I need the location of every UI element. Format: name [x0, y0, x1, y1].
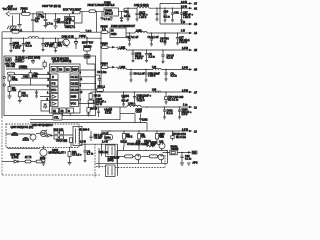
node dots rail y50: [132, 49, 163, 50]
wires IC left: [10, 75, 51, 97]
svg-text:C9D=9P-(2-9)9DC: C9D=9P-(2-9)9DC: [32, 124, 53, 127]
capacitor C3: [54, 14, 69, 29]
svg-text:0.1 m: 0.1 m: [167, 112, 173, 115]
resistor R942 47k: [8, 87, 17, 99]
resistor R961: [123, 131, 134, 147]
junction x122: [117, 155, 119, 157]
resistor chain R909: [88, 92, 101, 103]
svg-text:1.5 B: 1.5 B: [182, 66, 188, 69]
AC return bus y32: [2, 31, 80, 33]
svg-text:RG: RG: [193, 152, 197, 155]
resistor R910: [87, 103, 98, 116]
node dots rail y69: [130, 69, 166, 70]
svg-text:9MP: 9MP: [151, 144, 156, 147]
isolation dashed: [94, 144, 96, 178]
resistor R9 1.2: [70, 138, 73, 148]
capacitor C9Q2: [102, 131, 113, 144]
svg-text:(KA75 TL594C2): (KA75 TL594C2): [53, 60, 72, 63]
capacitor block C924: [65, 14, 76, 29]
svg-text:1 B: 1 B: [160, 135, 164, 138]
svg-text:1.5 B: 1.5 B: [182, 128, 188, 131]
svg-text:F B: F B: [52, 83, 56, 86]
transformer T9002: [73, 127, 82, 146]
capacitor C923: [148, 33, 159, 46]
wires IC right: [79, 70, 96, 104]
capacitor C942: [164, 69, 176, 81]
svg-text:TL(2) 3: TL(2) 3: [137, 99, 146, 102]
driver transistor Q9005: [133, 155, 135, 157]
node dots IC wires: [21, 69, 96, 84]
svg-text:0.1 m: 0.1 m: [167, 57, 173, 60]
svg-text:+ 16 B: + 16 B: [139, 16, 147, 19]
svg-text:C9 1uF: C9 1uF: [94, 137, 103, 140]
box CTL below IC: [53, 114, 62, 120]
node dots AC line: [32, 13, 56, 14]
transistor Q901: [58, 35, 74, 47]
wire Q9003 base: [8, 148, 40, 149]
AC plug P901: [3, 6, 18, 17]
svg-text:IC902: IC902: [104, 1, 111, 4]
capacitor C912: [41, 38, 54, 52]
diode D901: [74, 38, 77, 49]
snubber RC cluster: [96, 71, 107, 92]
svg-text:100u: 100u: [105, 136, 111, 139]
node dots rail y131: [109, 130, 173, 131]
optocoupler D9: [36, 130, 47, 138]
svg-text:CTL: CTL: [54, 116, 59, 119]
svg-text:4.7 B: 4.7 B: [96, 103, 102, 106]
svg-text:1M: 1M: [34, 75, 37, 78]
svg-text:+ 16 B: + 16 B: [13, 47, 21, 50]
inductor L908: [152, 89, 161, 92]
capacitor C924b: [160, 33, 169, 45]
capacitor C906: [120, 11, 123, 21]
svg-text:M5-1.5: M5-1.5: [105, 13, 113, 16]
fuse F9003b: [101, 42, 119, 50]
svg-text:KΩ 0.1m: KΩ 0.1m: [176, 136, 186, 139]
svg-text:1.6 B: 1.6 B: [80, 141, 86, 144]
driver stage feeds: [124, 147, 162, 150]
svg-text:1.5 B: 1.5 B: [182, 89, 188, 92]
bottom feedback wire: [2, 153, 44, 163]
svg-text:Q901 (2 B): Q901 (2 B): [62, 35, 74, 38]
rail L902 3.3B: [124, 4, 198, 10]
capacitor C913: [84, 55, 95, 64]
inductor L906: [118, 66, 153, 70]
resistor R964: [160, 131, 186, 141]
svg-text:470k: 470k: [12, 79, 18, 82]
svg-text:0.1 m: 0.1 m: [26, 44, 32, 47]
capacitor C922: [127, 33, 139, 46]
capacitor C9x: [146, 142, 148, 148]
resistor network cluster: [54, 128, 74, 142]
svg-text:1.5 B: 1.5 B: [182, 113, 188, 116]
svg-text:C93: C93: [164, 10, 169, 13]
svg-text:1.7 m: 1.7 m: [47, 23, 53, 26]
svg-text:1.7 m: 1.7 m: [87, 153, 93, 156]
IC top pin row: [51, 67, 79, 73]
svg-text:REF: REF: [73, 68, 78, 71]
resistor R927: [164, 92, 183, 104]
IC bottom pin row: [52, 108, 74, 113]
resistor R903: [54, 38, 63, 53]
transistor Q9007: [151, 139, 166, 150]
driver transistor Q9006: [157, 155, 160, 157]
transformer T9001 upper: [99, 145, 116, 157]
capacitor C929 electrolytic: [178, 107, 192, 119]
left frame wire: [1, 32, 3, 117]
bus y120: [30, 119, 120, 121]
transistor Q9003: [40, 146, 66, 166]
svg-text:C9 7+1 uF: C9 7+1 uF: [127, 36, 139, 39]
svg-text:MPSA/09L/9T t: MPSA/09L/9T t: [49, 152, 66, 155]
svg-text:1.5 B: 1.5 B: [182, 47, 188, 50]
arrow into C924: [72, 12, 75, 15]
rail y107 with L909: [93, 103, 197, 115]
capacitor C9007: [31, 14, 40, 32]
rail y131 loads: [101, 128, 197, 133]
svg-text:G: G: [68, 110, 70, 113]
svg-text:(MW): (MW): [108, 159, 114, 162]
fuse F9002: [21, 8, 31, 16]
svg-text:#1 Tk: #1 Tk: [25, 156, 32, 159]
capacitor C9008: [41, 14, 53, 28]
svg-text:0.1: 0.1: [35, 20, 39, 23]
resistor R941 470k: [8, 72, 19, 86]
svg-text:C92: C92: [174, 11, 179, 14]
capacitor C953: [83, 144, 93, 163]
svg-text:BOX "VOLREG": BOX "VOLREG": [63, 9, 81, 12]
svg-text:C9n: C9n: [124, 11, 129, 14]
svg-text:0.1 m: 0.1 m: [105, 112, 111, 115]
rail y92: [91, 89, 198, 94]
wire feed IC903: [96, 11, 98, 32]
capacitor C936 electrolytic: [131, 50, 144, 63]
transformer T9001 lower: [106, 156, 120, 176]
frame dashed bottom-left: [2, 117, 100, 175]
transistor pair arches: [6, 132, 31, 140]
capacitor C9H3: [136, 108, 149, 122]
snubber branch vertical: [94, 64, 96, 91]
dashed feedback box: [6, 124, 79, 148]
resistor cluster mid: [6, 59, 46, 86]
svg-text:+ 16 B: + 16 B: [148, 75, 156, 78]
svg-text:C9154: C9154: [122, 95, 130, 98]
resistor C9012: [19, 66, 28, 70]
svg-text:GND: GND: [71, 96, 77, 99]
svg-text:NC: NC: [52, 68, 56, 71]
snubber rail y38: [2, 37, 101, 39]
node dots rail y107: [146, 106, 180, 107]
driver resistor R9Q2: [119, 155, 125, 157]
primary bus vertical: [100, 32, 102, 92]
svg-text:+ 6.3 B: + 6.3 B: [179, 41, 187, 44]
svg-text:R9Q1: R9Q1: [121, 141, 128, 144]
capacitor C914: [97, 107, 100, 117]
varistor MOV R9: [82, 38, 93, 54]
svg-text:9D 100-6: 9D 100-6: [79, 129, 90, 132]
resistor R91: [68, 147, 83, 165]
inductor L9001: [79, 35, 87, 38]
capacitor C905: [100, 11, 109, 20]
svg-text:1.M: 1.M: [6, 59, 10, 62]
wire y144 secondary: [79, 143, 118, 145]
svg-text:+ 16 B: + 16 B: [135, 57, 143, 60]
inductor L901: [29, 37, 39, 39]
capacitor C9154: [122, 92, 130, 106]
svg-text:1292: 1292: [142, 118, 148, 121]
wire C924 to F9007: [75, 11, 83, 23]
capacitor C9016: [35, 90, 38, 98]
svg-text:C964.7 u: C964.7 u: [65, 26, 76, 29]
chassis ground (plug): [7, 16, 17, 30]
svg-text:0.1 m: 0.1 m: [171, 75, 177, 78]
fuse F9007: [80, 4, 115, 13]
IC left pin boxes: [51, 74, 59, 107]
svg-text:GND: GND: [111, 33, 117, 36]
svg-text:"DC 94/7.8 #: "DC 94/7.8 #: [3, 8, 18, 11]
svg-text:C1 E1: C1 E1: [71, 76, 79, 79]
svg-text:+ 10 B: + 10 B: [183, 16, 191, 19]
svg-text:1.4 B: 1.4 B: [102, 141, 108, 144]
svg-text:C9+ 3M: C9+ 3M: [6, 65, 15, 68]
vertical x135: [134, 114, 136, 123]
svg-text:F9007 LF9045=945=3.5: F9007 LF9045=945=3.5: [88, 4, 115, 7]
svg-text:16 B: 16 B: [65, 22, 70, 25]
IC pin numbers: [47, 72, 83, 103]
transistor Q9002: [30, 134, 36, 142]
inductor L903: [135, 29, 198, 35]
wire AC hot y14: [11, 11, 80, 14]
node dots y152: [166, 152, 182, 153]
svg-text:MOV "PA": MOV "PA": [82, 41, 93, 44]
driver resistor R9Q3: [142, 155, 150, 157]
svg-text:1 B: 1 B: [181, 30, 185, 33]
svg-text:Q90? #9(A)C91 (2?): Q90? #9(A)C91 (2?): [11, 126, 34, 129]
svg-text:2.2 m: 2.2 m: [149, 56, 155, 59]
capacitor C917 electrolytic: [135, 8, 148, 21]
svg-text:RC: RC: [66, 68, 70, 71]
connector pins enclosure left: [3, 76, 5, 86]
fuse F9005: [80, 26, 110, 34]
svg-text:FB: FB: [59, 68, 63, 71]
svg-text:440 k: 440 k: [126, 136, 133, 139]
fuse F9003: [11, 29, 23, 33]
regulator IC903: [110, 25, 136, 37]
fuse F9001: [163, 145, 198, 154]
resistor R963: [156, 131, 165, 139]
svg-text:12B: 12B: [136, 141, 141, 144]
fuse F9004: [101, 62, 119, 69]
svg-text:C9 0.1 uF: C9 0.1 uF: [134, 72, 145, 75]
svg-text:C1+9: C1+9: [136, 111, 143, 114]
svg-text:470: 470: [58, 45, 63, 48]
svg-text:C939 "UP (K2 B): C939 "UP (K2 B): [42, 5, 61, 8]
rail 1B y24: [160, 8, 198, 26]
capacitor C9 1uF: [90, 131, 104, 141]
svg-text:+ 1.4 B: + 1.4 B: [104, 108, 112, 111]
svg-text:4.7 m: 4.7 m: [104, 18, 110, 21]
labels inside enclosure top: [15, 57, 40, 63]
node dots rail L902: [127, 8, 182, 9]
capacitor C960 electrolytic: [92, 98, 106, 108]
svg-text:C9 0.1 uF: C9 0.1 uF: [148, 36, 159, 39]
IC bottom pin drops: [55, 113, 70, 116]
svg-text:(L/1B): (L/1B): [12, 156, 19, 159]
capacitor C918: [155, 8, 158, 21]
bus y122: [30, 122, 147, 124]
svg-text:C9 2.2m: C9 2.2m: [97, 71, 106, 74]
svg-text:0.1 m: 0.1 m: [164, 15, 170, 18]
capacitor C910: [124, 8, 130, 21]
IC right pin boxes: [70, 74, 79, 107]
capacitor C919: [163, 8, 169, 22]
regulator IC902: [104, 1, 124, 16]
diode D904: [47, 134, 54, 137]
svg-text:VCC: VCC: [71, 103, 76, 106]
capacitor C925 electrolytic: [176, 33, 190, 45]
node dots rail y92: [100, 91, 166, 92]
svg-text:C9Q4 (W): C9Q4 (W): [56, 140, 67, 143]
zener sub-box left of IC: [41, 101, 50, 112]
svg-text:R9 10: R9 10: [94, 95, 101, 98]
ground (line filter): [17, 14, 21, 27]
svg-text:U1 D2: U1 D2: [71, 89, 79, 92]
ground IC902: [109, 16, 113, 20]
capacitor C909 electrolytic: [9, 38, 22, 53]
node dots snubber rail: [10, 38, 87, 39]
vertical x120: [119, 107, 121, 120]
resistor R943 4.3k: [18, 90, 29, 103]
capacitor C940: [129, 69, 145, 82]
wire y113: [120, 113, 135, 115]
capacitor C911: [22, 38, 32, 53]
svg-text:APS: APS: [193, 162, 198, 165]
inductor L907: [152, 66, 198, 72]
vertical x147: [146, 123, 148, 131]
enclosure box PWM: [4, 56, 96, 116]
svg-text:4.3 k: 4.3 k: [22, 95, 28, 98]
inductor L905: [118, 46, 198, 52]
driver stage box: [96, 150, 168, 163]
capacitor C966 electrolytic: [133, 92, 152, 106]
capacitor C972: [163, 107, 173, 119]
capacitor C938: [161, 50, 174, 64]
capacitor C937: [145, 50, 155, 63]
thermistor box on AC line: [37, 12, 43, 16]
rail 3.3B top: [160, 1, 198, 8]
resistor block 1M: [5, 58, 16, 68]
svg-text:R9 10: R9 10: [91, 108, 98, 111]
capacitor C921 electrolytic: [180, 8, 194, 22]
capacitor C920: [171, 8, 179, 22]
svg-text:C9 2.2 +: C9 2.2 +: [72, 153, 82, 156]
svg-text:0.1 m: 0.1 m: [185, 157, 191, 160]
svg-text:1.7 (m): 1.7 (m): [45, 45, 53, 48]
ground right: [187, 163, 191, 165]
svg-text:0.1 m: 0.1 m: [160, 40, 166, 43]
svg-text:C2 E2: C2 E2: [71, 83, 79, 86]
node dots rail 1B: [129, 32, 178, 33]
svg-text:DTC: DTC: [51, 89, 56, 92]
svg-text:D: D: [52, 76, 54, 79]
svg-text:2Ω 0.1 m: 2Ω 0.1 m: [168, 99, 178, 102]
resistor zigzag R9Q4: [148, 145, 156, 147]
resistor R962: [138, 131, 146, 150]
transformer verticals: [99, 144, 118, 176]
IC9001 body: [50, 64, 81, 113]
driver labels: [121, 140, 165, 145]
svg-text:C9N2: C9N2: [16, 60, 23, 63]
capacitor C941 electrolytic: [144, 69, 160, 82]
capacitor C98: [180, 152, 191, 165]
svg-text:0.1 m: 0.1 m: [124, 15, 130, 18]
